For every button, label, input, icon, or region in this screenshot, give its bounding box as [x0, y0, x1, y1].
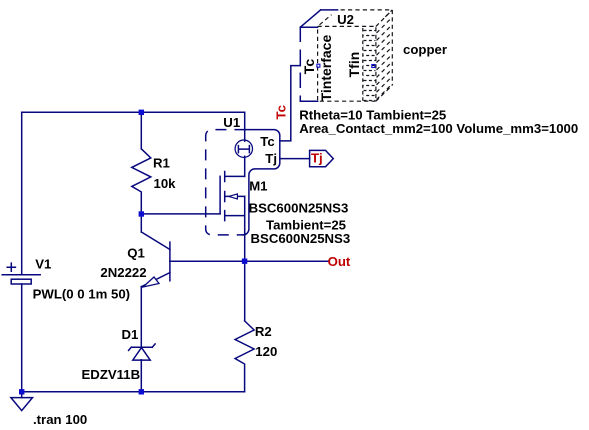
transistor Q1 [141, 232, 170, 287]
wire Tc pin to heatsink [280, 66, 301, 141]
U2 pin square Tinterface [317, 64, 320, 67]
wire bottom rail [22, 391, 245, 393]
svg-text:Tc: Tc [274, 105, 289, 119]
svg-text:U2: U2 [337, 12, 354, 27]
U2 back top edge [321, 9, 338, 11]
junction Out node [242, 259, 247, 264]
op U1 outline dashed part [206, 130, 245, 235]
U2 plate slant [301, 10, 321, 27]
svg-text:EDZV11B: EDZV11B [82, 367, 141, 382]
svg-text:Q1: Q1 [127, 245, 145, 260]
wire top rail [22, 111, 245, 113]
wire diode to rail [140, 360, 142, 392]
svg-text:Tinterface: Tinterface [318, 35, 334, 102]
svg-text:Tj: Tj [265, 151, 277, 166]
svg-text:2N2222: 2N2222 [100, 265, 146, 280]
svg-text:D1: D1 [122, 327, 139, 342]
svg-text:BSC600N25NS3: BSC600N25NS3 [249, 200, 349, 215]
svg-text:U1: U1 [223, 115, 240, 130]
svg-text:Tc: Tc [301, 59, 317, 75]
svg-text:Out: Out [328, 254, 351, 269]
junction gate node [139, 211, 144, 216]
wire collector drop [140, 214, 142, 232]
svg-text:Tj: Tj [311, 151, 323, 166]
heatsink U2 [300, 10, 392, 102]
svg-text:R2: R2 [255, 324, 272, 339]
diode D1 (zener) [129, 344, 156, 360]
U2 bottom-right slant [376, 85, 392, 101]
U2 top-right slant dashed [376, 10, 392, 27]
resistor R1 [132, 112, 151, 214]
wire Tj pin to flag [280, 158, 310, 160]
svg-text:copper: copper [403, 42, 447, 57]
svg-text:M1: M1 [249, 179, 267, 194]
U2 plate left edge [299, 27, 301, 101]
junction top rail R1 [139, 110, 144, 115]
voltage source V1 [2, 263, 40, 392]
resistor R2 [235, 321, 254, 392]
U2 face rect dashed [318, 26, 376, 101]
U2 plate top stub [300, 26, 317, 28]
U2 plate bottom stub [300, 100, 317, 102]
flag Tj [310, 150, 334, 166]
mosfet M1 [220, 156, 245, 321]
svg-text:Tc: Tc [260, 134, 274, 149]
svg-text:Area_Contact_mm2=100 Volume_mm: Area_Contact_mm2=100 Volume_mm3=1000 [299, 121, 578, 136]
wire top into U1 [244, 112, 246, 141]
svg-text:.tran 100: .tran 100 [33, 412, 87, 427]
U2 back right edge [391, 10, 393, 85]
U1 thermal source circle [235, 140, 252, 157]
junction diode rail [139, 389, 144, 394]
U2 fin hatch [377, 10, 392, 99]
junction ground node [19, 389, 24, 394]
U2 pin square Tfin [372, 65, 375, 68]
svg-text:10k: 10k [154, 176, 177, 191]
svg-text:PWL(0 0 1m 50): PWL(0 0 1m 50) [33, 287, 130, 302]
wire gate [141, 213, 220, 215]
wire left rail [21, 112, 23, 274]
ground [11, 392, 33, 411]
wire emitter to diode [140, 287, 142, 348]
svg-text:Tfin: Tfin [346, 52, 362, 78]
svg-text:120: 120 [255, 344, 277, 359]
U2 fin strip [362, 28, 364, 101]
svg-text:R1: R1 [153, 155, 170, 170]
svg-text:V1: V1 [35, 257, 51, 272]
op U1 outline solid part [243, 130, 280, 235]
wire base / Out net [170, 260, 328, 262]
svg-text:BSC600N25NS3: BSC600N25NS3 [251, 231, 351, 246]
U2 top-left slant dashed [320, 15, 332, 25]
